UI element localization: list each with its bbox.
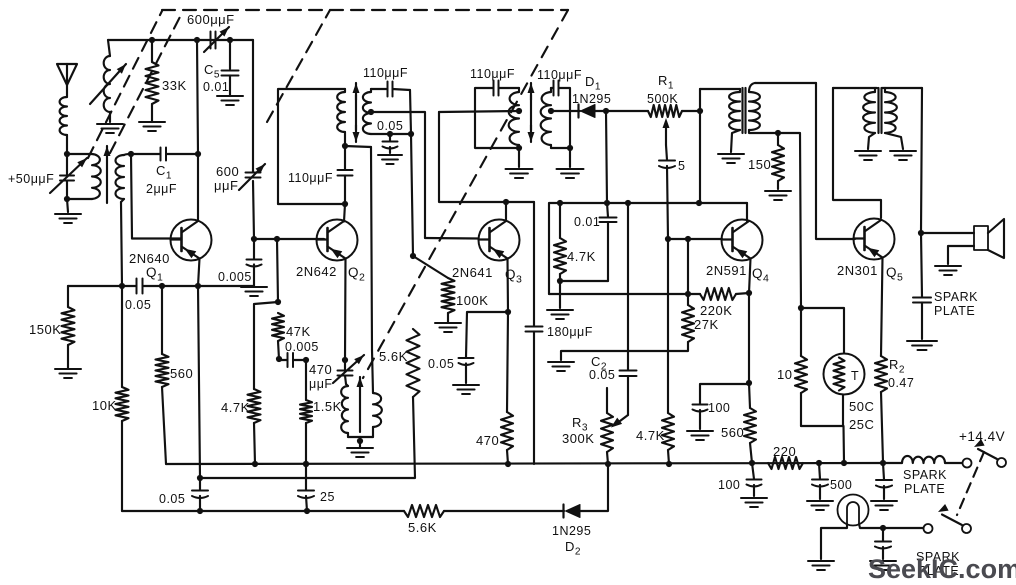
svg-text:10: 10: [777, 367, 792, 382]
ground 33K: [139, 122, 165, 131]
svg-text:2N591: 2N591: [706, 263, 747, 278]
node Q3 emitter junction: [505, 309, 511, 315]
svg-text:4.7K: 4.7K: [567, 249, 596, 264]
capacitor +50uuF antenna trimmer: [50, 154, 87, 199]
node IF2 secondary bottom: [551, 145, 573, 167]
variable capacitor 470uuF oscillator: [333, 355, 364, 384]
wire Q2 base to 47K: [277, 239, 278, 302]
wire IF1 tap to Q3 base: [371, 112, 425, 238]
ground antenna trimmer: [55, 214, 81, 223]
svg-text:2N301: 2N301: [837, 263, 878, 278]
svg-text:2N641: 2N641: [452, 265, 493, 280]
svg-text:180μμF: 180μμF: [547, 325, 593, 339]
resistor 560 Q4 emitter: [744, 383, 756, 463]
svg-text:μμF: μμF: [309, 377, 333, 391]
ground 150: [765, 191, 791, 200]
capacitor 110uuF IF1 secondary: [371, 82, 410, 97]
IF1 tuning double arrow: [353, 83, 360, 142]
wire network bottom: [801, 395, 844, 462]
svg-text:220K: 220K: [700, 303, 732, 318]
resistor 33K: [146, 40, 159, 122]
capacitor spark plate upper: [913, 233, 931, 339]
ground variable inductor: [97, 124, 123, 133]
transformer IF1 primary coil: [337, 89, 345, 146]
svg-text:10K: 10K: [92, 398, 117, 413]
svg-text:600μμF: 600μμF: [187, 12, 235, 27]
transformer antenna primary coil: [67, 154, 101, 199]
svg-text:500K: 500K: [647, 92, 678, 106]
svg-text:150: 150: [748, 157, 771, 172]
svg-text:25: 25: [320, 490, 335, 504]
svg-text:SeekIC.com: SeekIC.com: [868, 554, 1016, 580]
svg-text:0.005: 0.005: [285, 340, 319, 354]
ground 0.005: [241, 287, 267, 296]
wire Q2 collector: [344, 204, 345, 222]
capacitor 110uuF IF1 tank: [338, 146, 353, 204]
wire output primary to Q5 collector: [833, 88, 881, 218]
svg-text:μμF: μμF: [214, 178, 238, 193]
inductor oscillator coil left winding: [341, 384, 373, 437]
wire secondary to speaker line: [921, 88, 922, 233]
watermark SeekIC.com: [868, 554, 1016, 584]
node Q2 collector junction: [342, 201, 348, 207]
resistor 4.7K mixer bias: [248, 389, 261, 464]
node bus junctions: [252, 460, 886, 467]
capacitor 180uuF decoupling: [526, 202, 543, 464]
resistor 100K: [413, 256, 455, 322]
transformer output core: [879, 88, 882, 133]
ground 500: [807, 501, 833, 510]
ground IF2 primary: [506, 169, 533, 178]
svg-text:0.05: 0.05: [428, 357, 454, 371]
svg-text:0.01: 0.01: [574, 215, 600, 229]
resistor 150: [772, 133, 784, 189]
capacitor spark plate emitter: [876, 463, 892, 499]
dashed gang link line A (antenna trimmer to top rail): [88, 11, 162, 158]
variable capacitor 600uuF oscillator gang: [204, 27, 229, 52]
svg-text:600: 600: [216, 164, 239, 179]
node 1.5K top junction: [303, 357, 309, 363]
svg-text:PLATE: PLATE: [934, 304, 975, 318]
capacitor C5 0.01: [222, 40, 239, 96]
svg-text:0.05: 0.05: [377, 119, 403, 133]
transformer output secondary: [882, 88, 922, 149]
capacitor 500: [812, 463, 828, 499]
speaker: [921, 219, 1004, 264]
svg-text:33K: 33K: [162, 78, 187, 93]
node 47K top junction: [275, 299, 281, 305]
node oscillator coil center tap: [357, 437, 363, 447]
capacitor 0.005 oscillator coupling: [279, 353, 306, 367]
antenna loading coil: [60, 97, 67, 154]
wire Q3 base: [425, 237, 478, 240]
wire Q3 collector: [505, 202, 507, 221]
ground output secondary: [890, 151, 916, 160]
resistor R2 0.47: [875, 356, 887, 462]
capacitor 0.05 bypass lower-left: [192, 478, 208, 511]
capacitor 110uuF IF2 secondary: [551, 81, 570, 149]
switch upper blade: [974, 439, 997, 459]
wire divider to base: [687, 239, 689, 294]
dashed gang link top horizontal: [162, 9, 568, 11]
svg-text:500: 500: [830, 478, 852, 492]
ground spark lamp: [870, 561, 896, 570]
node AVC junction: [410, 253, 416, 259]
wire rail to Q1 collector: [197, 40, 198, 220]
capacitor 0.05 IF1 bypass: [383, 134, 398, 153]
svg-text:2μμF: 2μμF: [146, 182, 177, 196]
resistor 560: [156, 286, 169, 464]
dashed switch gang link: [957, 452, 984, 515]
svg-text:+50μμF: +50μμF: [8, 172, 54, 186]
wire Q1 emitter bias line: [68, 285, 254, 287]
R3 wiper arrow: [611, 379, 628, 428]
ground speaker: [935, 266, 961, 275]
resistor 4.7K AF: [662, 239, 674, 464]
node secondary top junction: [128, 151, 134, 157]
node IF1 bottom junctions: [387, 131, 414, 137]
transistor Q1 2N640: [171, 220, 212, 261]
pilot lamp: [838, 495, 869, 526]
svg-text:0.01: 0.01: [203, 80, 229, 94]
R1 wiper arrow: [663, 118, 670, 145]
potentiometer R3 300K: [601, 388, 613, 464]
capacitor C2 0.05: [620, 371, 637, 380]
svg-text:2N642: 2N642: [296, 264, 337, 279]
svg-text:560: 560: [721, 425, 744, 440]
svg-text:1N295: 1N295: [552, 524, 591, 538]
wire R1 feed column: [699, 89, 701, 203]
potentiometer R1 500K: [606, 105, 700, 117]
node top rail junctions: [149, 37, 233, 43]
resistor 27K: [561, 294, 694, 360]
wire IF1 feedback to oscillator: [345, 146, 371, 147]
transistor Q3 2N641: [479, 220, 520, 261]
wire Q3 collector feed: [439, 112, 534, 202]
svg-text:110μμF: 110μμF: [470, 67, 515, 81]
node R1 right junction: [697, 108, 703, 114]
node Q4 base junctions: [665, 236, 691, 242]
antenna transformer tuning arrow: [104, 146, 111, 203]
wire IF2 tap feed: [439, 111, 519, 112]
variable inductor antenna tuner: [90, 40, 126, 122]
svg-text:PLATE: PLATE: [904, 482, 945, 496]
node speaker junction: [918, 230, 924, 236]
wire Q3 emitter: [506, 259, 509, 313]
wire IF1 secondary bottom: [371, 133, 411, 135]
svg-text:0.05: 0.05: [159, 492, 185, 506]
wire rail right end down to Q2 base node: [253, 40, 254, 239]
capacitor C1 2uuF: [131, 148, 198, 161]
thermistor T: [824, 354, 865, 395]
ground driver primary: [718, 154, 744, 163]
resistor 1.5K: [300, 360, 312, 464]
transistor Q5 2N301: [854, 219, 895, 260]
wire AVC divider bus: [549, 293, 700, 295]
wire emitter column: [198, 286, 200, 478]
capacitor 110uuF IF2 primary: [494, 81, 520, 96]
ground 100 bypass: [687, 431, 713, 440]
ground output primary: [855, 151, 881, 160]
resistor 47K: [272, 313, 284, 359]
svg-text:0.005: 0.005: [218, 270, 252, 284]
wire Q2 base bias: [254, 238, 324, 240]
wire AF return line: [122, 464, 608, 511]
transformer antenna secondary coil: [116, 154, 132, 202]
ground detector load: [547, 310, 573, 319]
svg-text:SPARK: SPARK: [934, 290, 978, 304]
node Q2 base junctions: [251, 236, 280, 242]
wire Q4 emitter: [749, 259, 751, 294]
ground 100 bus: [741, 498, 767, 507]
wire secondary bottom to bias line: [121, 202, 122, 286]
node IF1 primary tap: [342, 143, 348, 149]
svg-text:150K: 150K: [29, 322, 61, 337]
node lamp line junction: [880, 525, 886, 531]
resistor 10K: [116, 286, 129, 511]
svg-text:1.5K: 1.5K: [313, 399, 342, 414]
capacitor 25 electrolytic: [298, 464, 314, 511]
dashed gang link line C (oscillator 600uuF cap): [267, 10, 330, 122]
svg-text:220: 220: [773, 444, 796, 459]
wire top rail: [108, 39, 253, 41]
transformer IF2 primary tank: [475, 88, 519, 148]
node oscillator tank top junction: [342, 357, 348, 363]
capacitor 0.005 base bypass: [247, 239, 262, 286]
ground Q3 bypass: [453, 385, 479, 394]
resistor 5.6K horizontal: [404, 505, 444, 517]
svg-text:2N640: 2N640: [129, 251, 170, 266]
wire Q4 collector: [746, 203, 748, 221]
svg-text:110μμF: 110μμF: [288, 171, 333, 185]
svg-text:470: 470: [476, 433, 499, 448]
wire main B- bus: [166, 463, 883, 464]
resistor 4.7K detector load: [554, 203, 566, 281]
capacitor 100 bus bypass: [747, 463, 762, 496]
svg-text:5: 5: [678, 159, 685, 173]
transformer driver core: [743, 88, 746, 133]
wire detector output column: [606, 111, 607, 203]
svg-text:47K: 47K: [286, 324, 311, 339]
node IF2 primary bottom: [516, 145, 522, 167]
svg-text:SPARK: SPARK: [903, 468, 947, 482]
svg-text:100: 100: [708, 401, 730, 415]
node emitter bypass junction: [746, 380, 752, 386]
inductor oscillator coil right winding: [371, 147, 382, 437]
svg-text:0.47: 0.47: [888, 376, 914, 390]
wire trimmer to ground: [67, 199, 68, 212]
IF2 tuning double arrow: [528, 83, 535, 142]
ground lamp: [808, 561, 834, 570]
resistor 220K: [700, 288, 749, 300]
antenna: [57, 64, 77, 97]
variable capacitor 600uuF mixer gang: [239, 164, 265, 190]
wire emitter column: [748, 293, 750, 383]
wire lamp left to ground: [821, 524, 847, 559]
node IF1 secondary tap: [368, 109, 374, 115]
svg-text:100K: 100K: [456, 293, 488, 308]
wire network top: [801, 308, 844, 353]
svg-text:50C: 50C: [849, 399, 874, 414]
capacitor 0.01 detector filter: [600, 203, 617, 281]
wire 47K node to 4.7K column: [254, 302, 278, 389]
wire C2 column: [627, 203, 629, 370]
transformer IF1 secondary coil: [363, 89, 371, 134]
diode D1 1N295: [551, 105, 606, 118]
switch terminal D: [962, 524, 971, 533]
svg-text:300K: 300K: [562, 431, 594, 446]
node 150 junction: [775, 130, 781, 136]
node Q3 collector junction: [503, 199, 509, 205]
switch terminal C: [924, 524, 933, 533]
dashed gang link line D (to 470uuF oscillator cap): [363, 10, 568, 378]
ground C5: [217, 96, 243, 105]
node divider junction: [685, 291, 691, 297]
switch terminal A: [963, 459, 972, 468]
node Q4 emitter junction: [746, 290, 752, 296]
transformer IF2 primary coil: [509, 88, 519, 148]
node 1.5K bottom junction: [303, 461, 309, 467]
svg-text:T: T: [851, 369, 859, 383]
node AVC bus junctions: [557, 200, 702, 206]
node emitter column junction: [197, 475, 203, 481]
inductor spark plate choke: [883, 456, 962, 463]
node IF2 secondary tap: [548, 108, 554, 114]
svg-text:4.7K: 4.7K: [636, 428, 665, 443]
svg-text:560: 560: [170, 366, 193, 381]
oscillator coil tuning arrow: [357, 377, 364, 432]
transformer IF2 secondary coil: [541, 88, 551, 148]
resistor 220: [768, 457, 803, 469]
transistor Q2 2N642: [317, 220, 358, 261]
ground IF2 secondary: [557, 169, 584, 178]
svg-text:470: 470: [309, 362, 332, 377]
capacitor 0.05 Q3 emitter bypass: [459, 312, 509, 383]
svg-text:5.6K: 5.6K: [379, 349, 408, 364]
switch terminal B +14.4V: [997, 458, 1006, 467]
wire Q1 emitter: [198, 259, 200, 287]
wire lamp right to switch: [859, 524, 924, 528]
capacitor spark plate lamp: [875, 528, 891, 559]
capacitor 100 Q4 emitter bypass: [693, 384, 750, 429]
wire Q2 emitter to oscillator tank: [344, 259, 347, 361]
svg-text:+14.4V: +14.4V: [959, 429, 1005, 444]
svg-text:1N295: 1N295: [572, 92, 611, 106]
node 0.005 left junction: [276, 356, 282, 362]
resistor 5.6K vertical: [200, 329, 420, 478]
svg-text:5.6K: 5.6K: [408, 520, 437, 535]
wire Q4 base: [668, 238, 722, 240]
wire Q5 emitter: [881, 258, 883, 357]
ground spark emitter: [871, 501, 897, 510]
svg-text:110μμF: 110μμF: [363, 66, 408, 80]
switch lower blade: [938, 504, 962, 525]
svg-text:0.05: 0.05: [125, 298, 151, 312]
node IF2 primary tap: [516, 108, 522, 114]
node bias line junctions: [119, 283, 201, 289]
wire AVC column: [410, 90, 413, 256]
dashed gang link line B (antenna coil to top rail): [110, 11, 183, 153]
diode D2 1N295: [564, 505, 581, 518]
svg-text:110μμF: 110μμF: [537, 68, 582, 82]
wire Q5 base feed: [816, 83, 855, 239]
node thermistor network top: [798, 305, 804, 311]
node AF return junctions: [197, 508, 310, 514]
resistor 470: [501, 312, 513, 464]
ground 100K: [435, 323, 461, 332]
ground oscillator coil: [347, 448, 373, 457]
node detector output: [603, 108, 609, 114]
svg-text:4.7K: 4.7K: [221, 400, 250, 415]
ground spark plate upper: [907, 341, 937, 350]
ground 27K: [548, 362, 574, 371]
wire detector-AVC bus: [549, 203, 747, 294]
resistor 150K: [62, 286, 75, 368]
node C1 right junction: [195, 151, 201, 157]
transistor Q4 2N591: [722, 220, 763, 261]
transformer IF1 primary tank box: [278, 89, 345, 204]
svg-text:100: 100: [718, 478, 740, 492]
ground IF1 bypass: [378, 155, 402, 164]
transformer output primary: [833, 88, 877, 149]
svg-text:27K: 27K: [694, 317, 719, 332]
wire Q1 base: [131, 154, 181, 239]
transformer driver primary: [700, 89, 740, 152]
node detector load bottom: [557, 278, 608, 308]
capacitor 5 coupling: [659, 145, 675, 239]
transformer driver secondary: [749, 83, 816, 308]
svg-text:25C: 25C: [849, 417, 874, 432]
capacitor 0.05 emitter line: [137, 279, 143, 294]
node trimmer bottom junction: [64, 196, 70, 202]
node antenna / primary junction: [64, 151, 70, 157]
resistor 10: [795, 308, 807, 426]
svg-text:0.05: 0.05: [589, 368, 615, 382]
ground 150K: [55, 369, 81, 378]
